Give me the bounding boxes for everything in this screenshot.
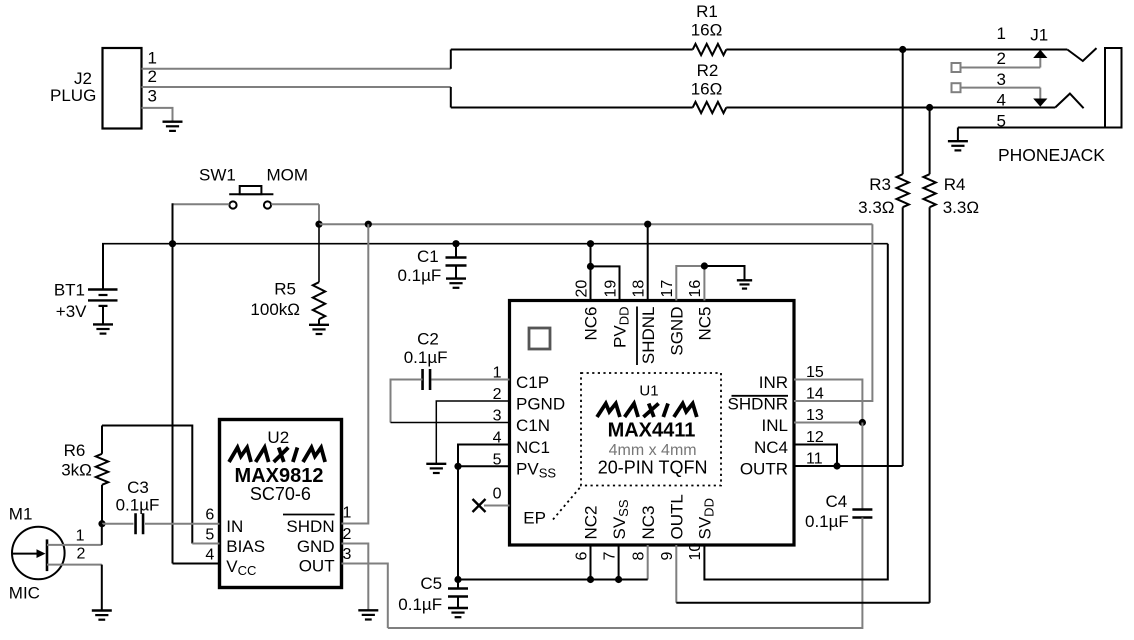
svg-text:GND: GND xyxy=(297,537,335,556)
EP dotted leader xyxy=(553,488,580,520)
svg-text:6: 6 xyxy=(205,507,214,524)
svg-text:NC3: NC3 xyxy=(639,505,658,539)
svg-text:18: 18 xyxy=(631,280,648,298)
svg-text:C1N: C1N xyxy=(516,416,550,435)
wire SW1 right xyxy=(271,203,319,205)
svg-text:8: 8 xyxy=(631,552,648,561)
wire R4 to OUTL xyxy=(929,207,931,603)
wire PVDD bracket xyxy=(591,266,620,300)
svg-text:7: 7 xyxy=(601,552,618,561)
svg-text:SHDNR: SHDNR xyxy=(728,394,788,413)
svg-text:17: 17 xyxy=(659,280,676,298)
svg-text:3kΩ: 3kΩ xyxy=(61,461,92,480)
svg-text:INL: INL xyxy=(762,416,788,435)
wire R1 to jack tip xyxy=(726,49,1067,51)
wire C3 to U2 IN xyxy=(145,523,220,525)
wire J2 pin1 to cable xyxy=(142,68,451,70)
wire SVSS stub xyxy=(618,545,620,580)
connector J2 (PLUG) xyxy=(103,48,142,129)
ground (SGND/NC5) xyxy=(737,279,752,281)
svg-text:3: 3 xyxy=(343,546,352,563)
wire INL xyxy=(794,422,862,424)
svg-text:M1: M1 xyxy=(9,505,33,524)
svg-text:R3: R3 xyxy=(869,175,891,194)
svg-text:2: 2 xyxy=(343,526,352,543)
wire U1 C1P to C2 xyxy=(431,379,509,381)
wire NC5 to ground xyxy=(704,266,744,280)
node NC4/OUTR xyxy=(833,462,840,469)
node NC1/PVSS junction xyxy=(454,463,461,470)
wire NC4 to OUTR xyxy=(794,445,837,467)
svg-text:0.1µF: 0.1µF xyxy=(116,496,160,515)
wire BIAS loop xyxy=(102,426,192,544)
svg-text:NC1: NC1 xyxy=(516,438,550,457)
svg-text:SHDN: SHDN xyxy=(286,517,334,536)
svg-text:C1P: C1P xyxy=(516,373,549,392)
svg-text:J1: J1 xyxy=(1030,25,1048,44)
svg-text:OUTR: OUTR xyxy=(740,459,788,478)
wire SW1 left xyxy=(173,203,230,205)
svg-text:NC5: NC5 xyxy=(696,307,715,341)
wire NC3 stub xyxy=(647,545,649,580)
op-amp U1 MAX4411 xyxy=(510,301,795,546)
wire C5 bus xyxy=(458,579,648,581)
svg-text:MIC: MIC xyxy=(9,584,40,603)
svg-text:100kΩ: 100kΩ xyxy=(250,300,300,319)
battery BT1 +3V xyxy=(102,244,104,289)
MAXIM logo (U2) xyxy=(229,448,325,463)
capacitor C4 0.1uF xyxy=(852,508,872,511)
svg-text:12: 12 xyxy=(806,429,824,446)
node R2/R4 junction xyxy=(926,104,933,111)
svg-text:C4: C4 xyxy=(825,492,847,511)
svg-text:OUTL: OUTL xyxy=(668,494,687,539)
svg-text:SC70-6: SC70-6 xyxy=(250,484,311,504)
wire SHDNR to rail xyxy=(794,224,872,401)
wire SVDD to V+ rail xyxy=(704,244,887,580)
wire INL to C4 xyxy=(861,423,863,510)
ground (R5) xyxy=(309,324,329,326)
ground (PGND) xyxy=(426,463,446,465)
svg-text:SGND: SGND xyxy=(668,307,687,356)
svg-text:0.1µF: 0.1µF xyxy=(805,512,849,531)
node V+/SW1 junction xyxy=(169,240,176,247)
node SGND/NC5 xyxy=(701,262,708,269)
MAXIM logo (U1) xyxy=(597,404,697,418)
svg-text:5: 5 xyxy=(205,527,214,544)
svg-text:20: 20 xyxy=(573,280,590,298)
svg-text:0.1µF: 0.1µF xyxy=(404,348,448,367)
svg-text:R6: R6 xyxy=(64,441,86,460)
svg-text:INR: INR xyxy=(759,373,788,392)
svg-text:OUT: OUT xyxy=(299,557,335,576)
wire U2 OUT to mic line xyxy=(342,564,388,629)
ground (U2 GND) xyxy=(358,609,378,611)
svg-text:20-PIN TQFN: 20-PIN TQFN xyxy=(598,458,708,478)
wire U2 SHDN to rail xyxy=(342,224,369,523)
node NC6 on rail xyxy=(587,240,594,247)
resistor R2 xyxy=(693,102,727,113)
svg-text:R4: R4 xyxy=(944,175,966,194)
node INR/INL junction xyxy=(859,419,866,426)
wire SHDNL to SHDN rail xyxy=(647,224,649,300)
svg-text:BIAS: BIAS xyxy=(226,537,265,556)
U1 SHDNL overline xyxy=(636,307,638,366)
svg-text:1: 1 xyxy=(343,505,352,522)
svg-text:U2: U2 xyxy=(267,428,289,447)
svg-text:4mm x 4mm: 4mm x 4mm xyxy=(609,442,697,459)
svg-text:MAX4411: MAX4411 xyxy=(608,420,696,442)
resistor R1 xyxy=(693,44,727,55)
node SHDNL on rail xyxy=(644,221,651,228)
svg-text:2: 2 xyxy=(148,67,157,86)
svg-text:2: 2 xyxy=(76,546,85,563)
wire C4 to mic line xyxy=(388,518,863,629)
svg-text:NC4: NC4 xyxy=(754,438,788,457)
svg-text:13: 13 xyxy=(806,407,824,424)
op-amp U2 MAX9812 xyxy=(220,420,342,588)
ground (C1) xyxy=(446,277,466,279)
svg-text:1: 1 xyxy=(997,24,1006,43)
wire right channel lower line xyxy=(450,87,452,108)
svg-text:PGND: PGND xyxy=(516,394,565,413)
svg-text:14: 14 xyxy=(806,386,824,403)
wire NC2 stub xyxy=(590,545,592,580)
svg-text:R5: R5 xyxy=(274,280,296,299)
svg-text:3.3Ω: 3.3Ω xyxy=(943,198,979,217)
svg-text:C5: C5 xyxy=(420,574,442,593)
svg-text:10: 10 xyxy=(687,543,704,561)
svg-text:2: 2 xyxy=(997,49,1006,68)
resistor R3 xyxy=(902,50,904,175)
wire OUTL down xyxy=(675,545,677,603)
node U2 SHDN on rail xyxy=(365,221,372,228)
node R1/R3 junction xyxy=(899,46,906,53)
wire R2 to jack ring xyxy=(726,107,1055,109)
svg-text:U1: U1 xyxy=(639,382,658,399)
svg-text:3: 3 xyxy=(148,87,157,106)
wire NC5 stub xyxy=(703,266,705,301)
U1 SHDNR overline xyxy=(732,395,789,397)
wire U1 PGND to ground xyxy=(436,401,509,464)
resistor R6 3k xyxy=(101,426,103,454)
svg-text:R2: R2 xyxy=(697,61,719,80)
svg-text:16Ω: 16Ω xyxy=(691,21,723,40)
U1 pin1 indicator square xyxy=(529,328,550,349)
svg-text:0.1µF: 0.1µF xyxy=(397,266,441,285)
svg-text:SHDNL: SHDNL xyxy=(639,307,658,365)
wire U2 VCC to V+ xyxy=(172,244,174,564)
svg-text:9: 9 xyxy=(659,552,676,561)
wire V+ rail (battery) xyxy=(102,243,888,245)
resistor R4 xyxy=(929,108,931,175)
svg-text:IN: IN xyxy=(226,517,243,536)
svg-text:4: 4 xyxy=(997,91,1006,110)
svg-text:C2: C2 xyxy=(417,330,439,349)
svg-text:NC6: NC6 xyxy=(582,307,601,341)
node PVSS/C5 xyxy=(454,576,461,583)
ground (J1 sleeve) xyxy=(948,140,968,142)
wire U1 PVSS xyxy=(458,465,510,467)
wire SHDN rail (gray) xyxy=(319,223,872,225)
U1 inner dotted outline xyxy=(581,373,721,486)
svg-text:1: 1 xyxy=(148,49,157,68)
resistor R5 100k xyxy=(318,224,320,282)
svg-text:NC2: NC2 xyxy=(582,505,601,539)
wire SGND bracket xyxy=(676,266,704,301)
node C1 on V+ rail xyxy=(452,240,459,247)
wire J2 pin2 to cable xyxy=(142,86,451,88)
svg-text:EP: EP xyxy=(523,509,546,528)
node R6/C3/M1 junction xyxy=(98,520,105,527)
wire OUTR to R3 xyxy=(794,465,903,467)
wire J2 pin3 to ground xyxy=(142,108,173,122)
svg-text:1: 1 xyxy=(76,528,85,545)
wire U2 GND to ground xyxy=(342,544,369,611)
ground (C5) xyxy=(448,607,468,609)
ground (BT1) xyxy=(93,323,113,325)
wire R3 to OUTR xyxy=(902,207,904,466)
node SHDN rail left xyxy=(315,221,322,228)
svg-text:15: 15 xyxy=(806,364,824,381)
svg-text:SW1: SW1 xyxy=(199,166,236,185)
svg-text:0.1µF: 0.1µF xyxy=(398,595,442,614)
svg-text:0: 0 xyxy=(493,486,502,503)
svg-text:C1: C1 xyxy=(417,247,439,266)
wire C2 to C1N xyxy=(391,380,423,423)
wire PVSS down to C5 xyxy=(457,466,459,579)
svg-text:BT1: BT1 xyxy=(54,281,85,300)
svg-text:6: 6 xyxy=(573,552,590,561)
svg-text:R1: R1 xyxy=(696,2,718,21)
svg-text:3.3Ω: 3.3Ω xyxy=(858,198,894,217)
ground (M1) xyxy=(92,609,112,611)
svg-text:PHONEJACK: PHONEJACK xyxy=(998,145,1105,165)
svg-text:MOM: MOM xyxy=(267,166,309,185)
capacitor C3 0.1uF xyxy=(102,523,134,525)
svg-text:16Ω: 16Ω xyxy=(691,80,723,99)
capacitor C5 0.1uF xyxy=(457,580,459,589)
node NC6/PVDD xyxy=(587,263,594,270)
ground (J2 pin3) xyxy=(163,120,183,122)
wire INR xyxy=(794,380,862,423)
svg-text:PLUG: PLUG xyxy=(50,86,96,105)
wire OUTL to R4 xyxy=(676,602,929,604)
svg-text:11: 11 xyxy=(806,451,823,468)
svg-text:+3V: +3V xyxy=(56,302,87,321)
wire left channel top line xyxy=(450,50,452,69)
wire U1 NC1 to PVSS xyxy=(458,445,510,467)
svg-text:4: 4 xyxy=(205,547,214,564)
svg-text:C3: C3 xyxy=(127,478,149,497)
wire NC6 to V+ rail xyxy=(590,244,592,301)
svg-text:19: 19 xyxy=(602,280,619,298)
svg-text:3: 3 xyxy=(997,70,1006,89)
svg-text:16: 16 xyxy=(687,280,704,298)
